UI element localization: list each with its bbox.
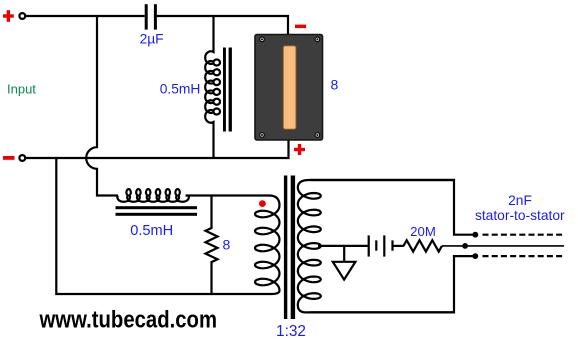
transformer core — [284, 176, 295, 320]
input + terminal — [19, 13, 25, 19]
svg-text:2nF: 2nF — [508, 193, 532, 208]
tweeter screw bottom-right — [315, 133, 320, 138]
plus label tweeter — [294, 144, 305, 155]
svg-text:8: 8 — [331, 77, 339, 93]
svg-text:2µF: 2µF — [140, 31, 164, 46]
core bars L2 — [116, 206, 198, 216]
inductor L1 0.5mH shunt — [205, 16, 220, 158]
tweeter screw top-right — [315, 37, 320, 42]
node top stator — [472, 232, 478, 238]
plus label input — [3, 10, 14, 22]
wire left branch down — [56, 158, 271, 294]
wire diaphragm feed — [442, 245, 564, 247]
core bars L1 — [223, 48, 232, 132]
stator top dashed — [483, 234, 565, 236]
battery bias supply — [368, 235, 394, 256]
wire secondary bottom — [310, 256, 475, 312]
resistor R2 20M — [404, 240, 442, 251]
wire minus rail — [25, 141, 288, 159]
node diaphragm — [462, 243, 468, 249]
wire secondary top — [310, 180, 475, 235]
capacitor C1 2uF — [145, 4, 157, 29]
svg-text:20M: 20M — [410, 224, 436, 239]
wire cap branch with hop — [86, 16, 118, 196]
resistor R1 8 — [206, 196, 218, 295]
input - terminal — [19, 155, 25, 161]
svg-text:0.5mH: 0.5mH — [130, 223, 173, 239]
svg-text:stator-to-stator: stator-to-stator — [475, 208, 565, 223]
node bottom stator — [472, 253, 478, 259]
svg-text:Input: Input — [7, 82, 36, 97]
transformer T1 primary — [255, 206, 280, 295]
transformer T1 secondary — [298, 180, 455, 312]
minus label input — [3, 156, 15, 160]
wire top rail left — [25, 15, 144, 17]
transformer phase dot — [259, 200, 266, 207]
svg-text:0.5mH: 0.5mH — [160, 82, 201, 97]
svg-text:8: 8 — [223, 237, 231, 253]
tweeter ribbon — [283, 46, 296, 129]
ribbon tweeter body — [255, 35, 323, 141]
stator bottom dashed — [483, 255, 565, 257]
wire top rail right — [157, 16, 288, 36]
minus label tweeter — [295, 25, 306, 29]
tweeter screw bottom-left — [260, 133, 265, 138]
ground — [333, 246, 356, 280]
svg-text:www.tubecad.com: www.tubecad.com — [39, 307, 217, 334]
wire center tap — [318, 245, 368, 247]
inductor L2 0.5mH series — [117, 189, 188, 202]
wire battery to resistor — [393, 245, 403, 247]
svg-text:1:32: 1:32 — [276, 323, 306, 339]
wire L2 to transformer — [186, 196, 280, 206]
tweeter screw top-left — [260, 37, 265, 42]
